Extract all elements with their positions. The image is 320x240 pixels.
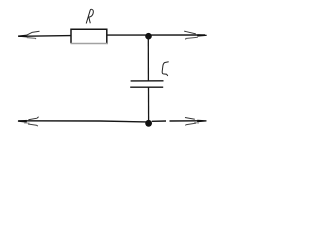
- terminal arrow top-right: [184, 31, 207, 39]
- resistor R1 body: [71, 29, 108, 43]
- wire capacitor lower: [148, 87, 150, 122]
- label C: [162, 62, 169, 76]
- wire top-right segment: [107, 34, 205, 36]
- wire capacitor upper: [147, 36, 149, 81]
- terminal arrow top-left: [18, 31, 40, 39]
- terminal arrow bottom-right: [185, 118, 207, 126]
- wire bottom-left segment: [18, 121, 146, 122]
- label R: [86, 9, 93, 23]
- wire bottom-right segment b: [170, 120, 198, 122]
- junction node bottom: [145, 120, 152, 127]
- wire bottom-right segment a: [152, 120, 166, 122]
- wire top-left segment: [19, 35, 72, 38]
- capacitor C1 bottom plate: [130, 86, 163, 88]
- terminal arrow bottom-left: [18, 117, 39, 126]
- capacitor C1 top plate: [131, 80, 164, 82]
- junction node top: [145, 33, 152, 40]
